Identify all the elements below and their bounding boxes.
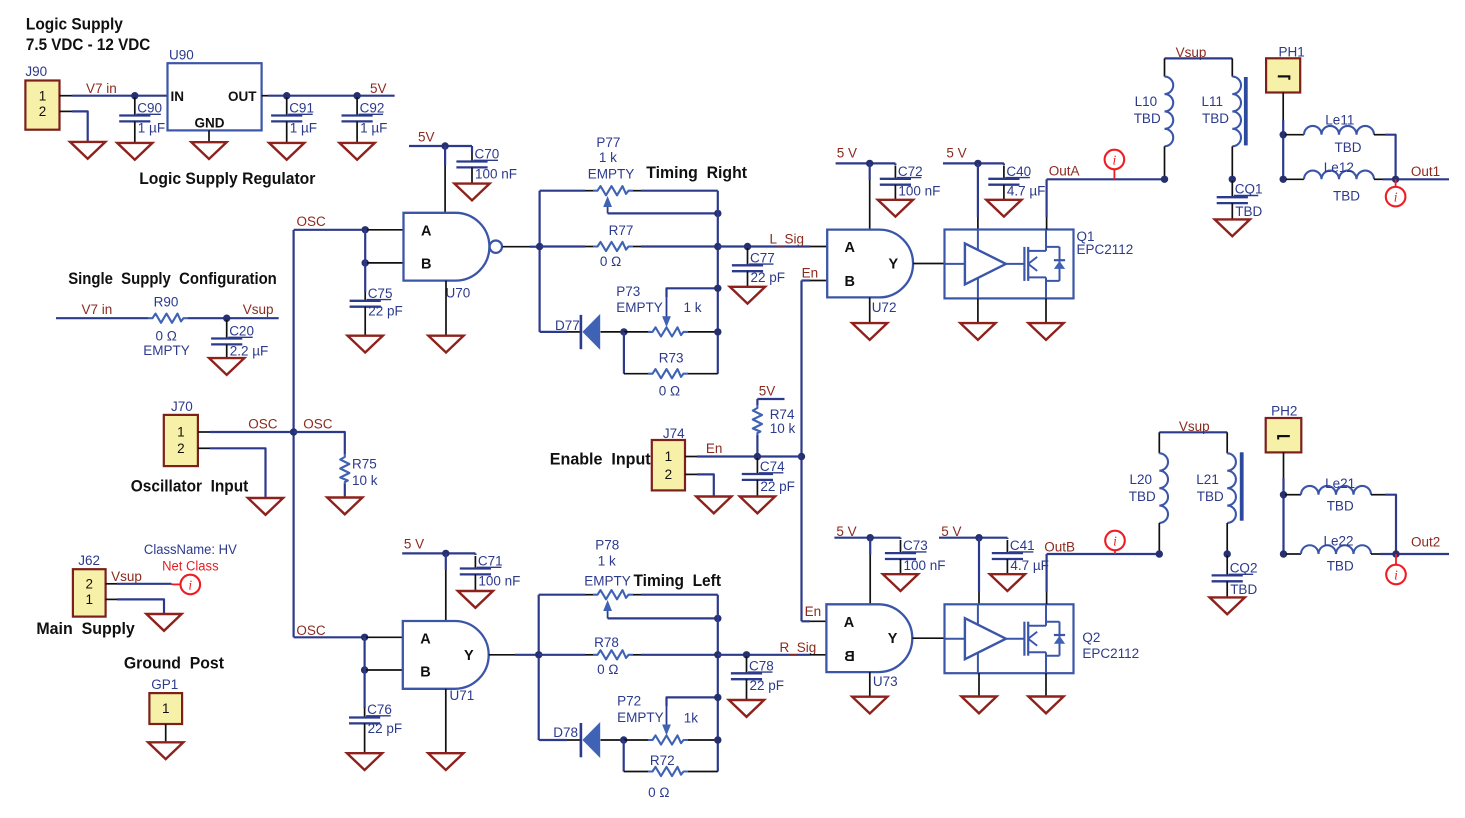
svg-text:R75: R75: [352, 457, 377, 472]
svg-text:5 V: 5 V: [837, 146, 857, 161]
svg-text:EPC2112: EPC2112: [1077, 242, 1134, 257]
svg-text:10 k: 10 k: [352, 473, 378, 488]
svg-text:TBD: TBD: [1335, 140, 1362, 155]
svg-text:C76: C76: [367, 702, 392, 717]
svg-text:OutB: OutB: [1044, 540, 1075, 555]
svg-text:1k: 1k: [684, 711, 699, 726]
svg-text:TBD: TBD: [1197, 489, 1224, 504]
svg-text:J70: J70: [171, 399, 193, 414]
svg-text:B: B: [845, 274, 855, 290]
svg-text:2: 2: [177, 441, 185, 456]
svg-text:100 nF: 100 nF: [475, 166, 517, 181]
svg-text:CQ2: CQ2: [1230, 561, 1258, 576]
svg-text:Le22: Le22: [1324, 534, 1354, 549]
svg-text:1: 1: [39, 89, 47, 104]
svg-text:EMPTY: EMPTY: [616, 300, 663, 315]
svg-text:TBD: TBD: [1327, 559, 1354, 574]
svg-text:R74: R74: [770, 407, 795, 422]
svg-text:R72: R72: [650, 753, 675, 768]
svg-text:1 k: 1 k: [684, 300, 702, 315]
svg-text:GP1: GP1: [151, 677, 178, 692]
svg-text:PH2: PH2: [1271, 404, 1297, 419]
svg-text:i: i: [1394, 567, 1398, 582]
svg-text:i: i: [188, 577, 192, 592]
svg-text:TBD: TBD: [1230, 582, 1257, 597]
svg-text:OSC: OSC: [303, 417, 333, 432]
svg-text:D77: D77: [555, 318, 580, 333]
svg-text:OSC: OSC: [248, 417, 278, 432]
svg-text:1 µF: 1 µF: [360, 120, 387, 135]
svg-text:Main Supply: Main Supply: [36, 620, 134, 638]
svg-text:100 nF: 100 nF: [478, 573, 520, 588]
svg-text:B: B: [420, 665, 430, 681]
svg-text:OutA: OutA: [1049, 164, 1080, 179]
svg-text:1: 1: [85, 592, 93, 607]
svg-text:Le12: Le12: [1324, 160, 1354, 175]
svg-text:C77: C77: [750, 250, 775, 265]
svg-text:2.2 µF: 2.2 µF: [230, 343, 269, 358]
svg-text:5V: 5V: [370, 81, 387, 96]
svg-text:GND: GND: [195, 115, 225, 130]
svg-text:Le21: Le21: [1325, 476, 1355, 491]
svg-text:Vsup: Vsup: [111, 569, 142, 584]
svg-text:R90: R90: [154, 294, 179, 309]
svg-text:En: En: [802, 266, 819, 281]
svg-text:EMPTY: EMPTY: [588, 167, 635, 182]
svg-text:1 µF: 1 µF: [290, 120, 317, 135]
svg-text:TBD: TBD: [1202, 111, 1229, 126]
svg-text:i: i: [1113, 152, 1117, 167]
svg-text:7.5 VDC - 12 VDC: 7.5 VDC - 12 VDC: [26, 36, 150, 54]
svg-text:C92: C92: [360, 101, 385, 116]
svg-text:0 Ω: 0 Ω: [648, 785, 669, 800]
svg-text:V7 in: V7 in: [82, 302, 113, 317]
svg-text:Oscillator Input: Oscillator Input: [131, 478, 249, 496]
svg-text:5V: 5V: [759, 384, 776, 399]
svg-text:0 Ω: 0 Ω: [597, 662, 618, 677]
svg-text:P77: P77: [596, 135, 620, 150]
svg-text:1 µF: 1 µF: [138, 120, 165, 135]
svg-text:J74: J74: [663, 426, 685, 441]
svg-text:EPC2112: EPC2112: [1082, 646, 1139, 661]
svg-text:TBD: TBD: [1129, 489, 1156, 504]
svg-text:A: A: [420, 632, 431, 648]
svg-text:10 k: 10 k: [770, 421, 796, 436]
svg-text:TBD: TBD: [1134, 111, 1161, 126]
svg-text:A: A: [845, 240, 856, 256]
svg-text:22 pF: 22 pF: [760, 479, 795, 494]
svg-text:22 pF: 22 pF: [368, 303, 403, 318]
svg-text:U70: U70: [446, 286, 471, 301]
svg-text:EMPTY: EMPTY: [143, 343, 190, 358]
svg-text:C70: C70: [475, 147, 500, 162]
svg-text:L11: L11: [1202, 94, 1224, 109]
svg-text:Net Class: Net Class: [162, 559, 219, 574]
svg-text:22 pF: 22 pF: [751, 270, 786, 285]
svg-text:5V: 5V: [418, 130, 435, 145]
svg-text:i: i: [1113, 533, 1117, 548]
svg-text:Single Supply Configuration: Single Supply Configuration: [68, 270, 277, 288]
svg-text:Vsup: Vsup: [243, 302, 274, 317]
svg-text:C72: C72: [898, 164, 923, 179]
svg-text:A: A: [421, 223, 432, 239]
svg-text:J62: J62: [78, 553, 100, 568]
svg-text:C78: C78: [749, 658, 774, 673]
svg-text:U90: U90: [169, 48, 194, 63]
svg-text:Q2: Q2: [1082, 630, 1100, 645]
svg-text:Ground Post: Ground Post: [124, 655, 225, 673]
svg-text:OSC: OSC: [296, 623, 326, 638]
svg-text:Y: Y: [889, 257, 899, 273]
svg-text:D78: D78: [553, 725, 578, 740]
svg-text:0 Ω: 0 Ω: [156, 329, 177, 344]
svg-text:1 k: 1 k: [598, 554, 616, 569]
svg-text:22 pF: 22 pF: [368, 721, 403, 736]
svg-text:5 V: 5 V: [404, 537, 424, 552]
svg-text:EMPTY: EMPTY: [584, 573, 631, 588]
svg-text:C41: C41: [1010, 538, 1035, 553]
svg-text:100 nF: 100 nF: [904, 558, 946, 573]
svg-text:R73: R73: [659, 350, 684, 365]
svg-text:C74: C74: [760, 459, 785, 474]
svg-text:L10: L10: [1135, 94, 1158, 109]
svg-text:4.7 µF: 4.7 µF: [1010, 558, 1049, 573]
svg-text:5 V: 5 V: [946, 146, 966, 161]
svg-text:C20: C20: [229, 324, 254, 339]
svg-text:Logic Supply: Logic Supply: [26, 16, 124, 34]
svg-text:V7 in: V7 in: [86, 81, 117, 96]
svg-text:J90: J90: [25, 64, 47, 79]
svg-text:TBD: TBD: [1333, 189, 1360, 204]
svg-text:2: 2: [85, 576, 93, 591]
svg-text:1: 1: [665, 449, 673, 464]
svg-text:Enable Input: Enable Input: [550, 451, 651, 469]
svg-text:4.7 µF: 4.7 µF: [1007, 184, 1046, 199]
svg-text:2: 2: [39, 104, 47, 119]
svg-text:2: 2: [665, 467, 673, 482]
svg-text:R78: R78: [594, 635, 619, 650]
svg-text:Timing Left: Timing Left: [634, 572, 722, 590]
svg-text:L20: L20: [1130, 472, 1153, 487]
svg-text:R_Sig: R_Sig: [780, 640, 817, 655]
svg-text:P78: P78: [595, 538, 619, 553]
svg-text:Timing Right: Timing Right: [646, 164, 747, 182]
svg-text:0 Ω: 0 Ω: [600, 254, 621, 269]
svg-text:Logic Supply Regulator: Logic Supply Regulator: [139, 170, 316, 188]
svg-text:B: B: [844, 649, 854, 665]
svg-text:1: 1: [177, 425, 185, 440]
svg-text:U71: U71: [450, 688, 475, 703]
svg-text:C73: C73: [903, 538, 928, 553]
svg-text:En: En: [805, 604, 822, 619]
svg-text:C40: C40: [1006, 164, 1031, 179]
svg-text:Y: Y: [888, 631, 898, 647]
svg-text:Le11: Le11: [1325, 113, 1354, 128]
svg-text:22 pF: 22 pF: [750, 678, 785, 693]
svg-text:100 nF: 100 nF: [898, 184, 940, 199]
svg-text:U73: U73: [873, 674, 898, 689]
svg-text:OUT: OUT: [228, 89, 257, 104]
svg-text:C71: C71: [478, 554, 503, 569]
svg-text:0 Ω: 0 Ω: [659, 384, 680, 399]
svg-text:L_Sig: L_Sig: [770, 232, 805, 247]
svg-text:C75: C75: [368, 286, 393, 301]
svg-text:B: B: [421, 256, 431, 272]
svg-text:TBD: TBD: [1327, 499, 1354, 514]
svg-text:1 k: 1 k: [599, 150, 617, 165]
svg-text:P72: P72: [617, 694, 641, 709]
svg-text:Out2: Out2: [1411, 535, 1440, 550]
svg-text:TBD: TBD: [1235, 204, 1262, 219]
svg-text:Out1: Out1: [1411, 164, 1440, 179]
svg-text:i: i: [1394, 189, 1398, 204]
svg-text:U72: U72: [872, 300, 897, 315]
svg-text:IN: IN: [171, 89, 185, 104]
svg-text:EMPTY: EMPTY: [617, 710, 664, 725]
svg-text:A: A: [844, 615, 855, 631]
svg-text:L21: L21: [1196, 472, 1219, 487]
svg-text:OSC: OSC: [297, 214, 327, 229]
svg-text:En: En: [706, 441, 723, 456]
svg-text:C90: C90: [137, 101, 162, 116]
svg-text:Y: Y: [464, 648, 474, 664]
svg-text:ClassName: HV: ClassName: HV: [144, 542, 237, 557]
svg-text:C91: C91: [289, 101, 314, 116]
svg-text:R77: R77: [609, 223, 634, 238]
svg-text:1: 1: [162, 701, 170, 716]
svg-text:CQ1: CQ1: [1235, 182, 1263, 197]
svg-text:P73: P73: [616, 284, 640, 299]
